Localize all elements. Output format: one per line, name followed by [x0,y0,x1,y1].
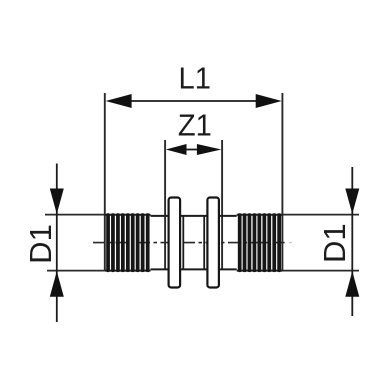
Z1 extension line left (continues as step line into fitting) [164,140,166,270]
D1 right dimension line [351,167,353,316]
fitting body: bottom edge right rib zone [237,270,283,272]
fitting body: bottom edge over left rib zone [105,270,151,272]
D1 left dimension line [56,164,58,323]
D1 right extension line top [282,214,359,216]
centerline faint tail dot [289,242,292,244]
L1 extension line right [281,93,283,271]
fitting body: top edge over left rib zone [105,214,151,216]
L1 dimension line [128,100,258,102]
left barb ribs [106,213,149,272]
svg-text:D1: D1 [317,223,352,263]
right barb ribs [238,213,281,272]
Z1 arrow right [197,144,222,155]
D1 left extension line bottom [47,270,105,272]
L1 extension line left [104,93,106,271]
fitting body: top edge waist [180,215,206,217]
D1 right extension line bottom [282,270,359,272]
fitting body: bottom edge waist [180,268,206,270]
fitting body: bottom edge left smooth section [151,268,169,270]
Z1 dimension line [185,149,200,151]
D1 left extension line top [45,214,105,216]
L1 arrow right [256,94,282,108]
D1 right arrow down [345,189,359,215]
fitting body: bottom edge right smooth section [219,268,237,270]
fitting body: top edge right rib zone [237,214,283,216]
D1 left arrow up [50,271,64,297]
L1 arrow left [106,94,132,108]
svg-text:Z1: Z1 [178,107,212,142]
D1 right arrow up [345,271,359,297]
svg-text:D1: D1 [23,224,58,264]
waist inner line right [203,217,205,269]
fitting body: top edge left smooth section [151,215,169,217]
left flange [169,198,181,288]
centerline [93,242,285,244]
Z1 extension line right (continues as step line into fitting) [221,140,223,270]
waist inner line left [182,217,184,269]
fitting body: top edge right smooth section [219,215,237,217]
right flange [207,198,219,288]
D1 left arrow down [50,189,64,215]
Z1 arrow left [166,144,187,155]
svg-text:L1: L1 [179,61,211,96]
